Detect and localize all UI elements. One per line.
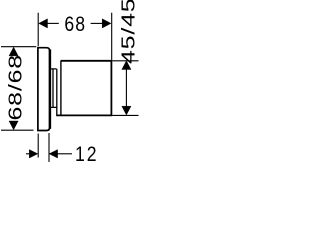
right dim 45/45: dim line [125,69,127,108]
top dim 68: dim line left segment [47,22,59,24]
handle collar back edge [56,69,58,116]
handle (45x45 knob side view) [56,61,111,116]
plate (escutcheon side view) [38,48,50,131]
bottom dim 12: right extension line [48,133,50,162]
handle inner back line [60,61,62,116]
right dim 45/45: up arrow [122,61,131,70]
left dim 68/68: up arrow [9,47,18,56]
bottom dim 12: right tail [57,153,72,155]
sleeve inner line [52,69,54,108]
top dim 68: dim line right segment [91,22,103,24]
plate front face thick edge [49,50,52,129]
bottom dim 12: left arrow (points right) [29,150,38,158]
sleeve [50,69,57,108]
right dim 45/45: bottom extension line [112,114,138,116]
top dim 68: left extension line [37,13,39,47]
top dim 68: left arrow [39,19,48,28]
right dim 45/45: down arrow [122,106,131,115]
bottom dim 12: left extension line [37,134,39,158]
top dim 68: right extension line [111,13,113,60]
left dim 68/68: bottom extension line [1,129,34,131]
svg-text:68/68: 68/68 [4,54,25,121]
bottom dim 12: left tail [26,153,31,155]
right dim 45/45: top extension line [112,60,138,62]
top dim 68: right arrow [102,19,111,28]
bottom dim 12: right arrow (points left) [49,150,58,158]
left dim 68/68: top extension line [1,46,36,48]
svg-text:12: 12 [75,143,99,166]
svg-text:45/45: 45/45 [117,0,138,64]
svg-text:68: 68 [64,13,86,37]
left dim 68/68: down arrow [9,121,18,130]
